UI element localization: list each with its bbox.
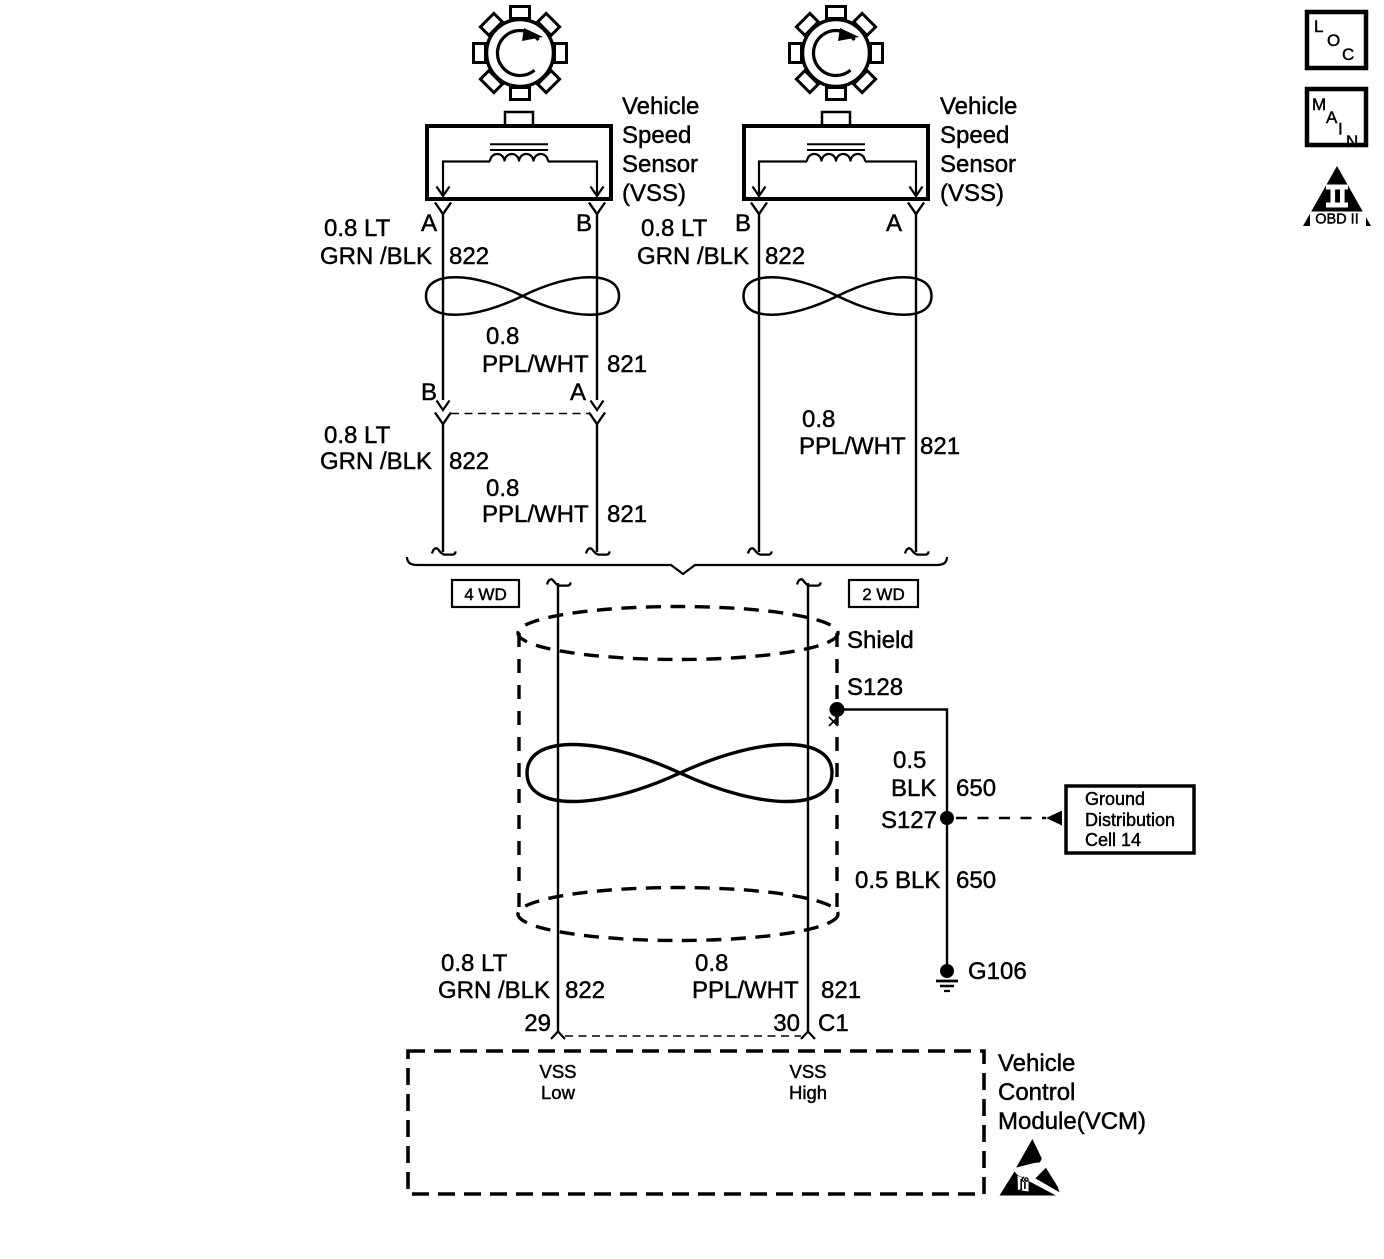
svg-text:GRN /BLK: GRN /BLK: [320, 243, 432, 270]
svg-text:821: 821: [920, 433, 960, 460]
svg-text:Vehicle: Vehicle: [622, 93, 699, 120]
left VSS box: [427, 126, 611, 199]
left VSS internal wire to pin B: [548, 162, 597, 195]
svg-text:821: 821: [821, 977, 861, 1004]
svg-text:Sensor: Sensor: [940, 151, 1016, 178]
svg-text:A: A: [1326, 108, 1338, 127]
svg-text:0.8 LT: 0.8 LT: [324, 215, 391, 242]
svg-text:822: 822: [449, 448, 489, 475]
svg-text:Control: Control: [998, 1079, 1075, 1106]
svg-text:S127: S127: [881, 807, 937, 834]
shield cylinder left side: [517, 633, 520, 914]
svg-text:M: M: [1312, 95, 1326, 114]
svg-text:Distribution: Distribution: [1085, 810, 1175, 830]
svg-text:GRN /BLK: GRN /BLK: [637, 243, 749, 270]
left VSS mounting nub: [505, 112, 533, 126]
OBD II label plate: [1310, 212, 1366, 227]
svg-text:822: 822: [765, 243, 805, 270]
svg-text:Vehicle: Vehicle: [998, 1050, 1075, 1077]
ground G106 symbol: [940, 964, 954, 978]
shield cylinder bottom ellipse: [518, 888, 838, 941]
svg-text:PPL/WHT: PPL/WHT: [482, 501, 589, 528]
dashed reference wire from S127: [956, 817, 1046, 819]
left VSS internal wire to pin A: [443, 162, 490, 195]
svg-text:VSS: VSS: [789, 1061, 826, 1082]
shield cylinder top ellipse: [518, 607, 838, 660]
svg-text:OBD II: OBD II: [1315, 212, 1359, 228]
svg-text:B: B: [576, 210, 592, 237]
svg-text:0.8: 0.8: [486, 475, 519, 502]
svg-text:822: 822: [449, 243, 489, 270]
svg-text:G106: G106: [968, 958, 1027, 985]
svg-text:Cell 14: Cell 14: [1085, 830, 1141, 850]
reluctor wheel (right VSS drive gear): [790, 7, 883, 100]
big twisted pair inside shield: [527, 745, 832, 802]
wire continuation tildes below brace: [547, 579, 571, 585]
reluctor wheel (left VSS drive gear): [474, 7, 567, 100]
wire VSS high through shield (808): [807, 583, 809, 1032]
svg-text:Sensor: Sensor: [622, 151, 698, 178]
inline connector arrows (left pair): [437, 401, 450, 411]
twisted pair symbol left: [426, 277, 619, 315]
svg-text:0.8: 0.8: [486, 323, 519, 350]
x mark below S128: [829, 717, 838, 726]
ground distribution reference box: [1066, 786, 1194, 853]
wire right B (759): [758, 214, 760, 552]
left VSS coil: [490, 154, 548, 161]
VCM pin caret 29: [551, 1032, 565, 1040]
svg-text:0.8: 0.8: [802, 406, 835, 433]
svg-text:Ground: Ground: [1085, 789, 1145, 809]
twisted pair symbol right: [744, 277, 932, 315]
inline connector Y pins: [435, 413, 451, 425]
2WD option box: [849, 580, 918, 607]
svg-text:VSS: VSS: [539, 1061, 576, 1082]
svg-text:0.8: 0.8: [695, 950, 728, 977]
svg-text:0.8 LT: 0.8 LT: [641, 215, 708, 242]
wire right A (916): [915, 214, 917, 552]
pin connectors under left VSS: [435, 203, 451, 215]
splice S128 dot: [830, 702, 845, 717]
inline connector dashed line: [451, 413, 589, 415]
wire left A (443) upper: [442, 214, 444, 400]
svg-text:821: 821: [607, 501, 647, 528]
svg-text:High: High: [789, 1082, 827, 1103]
svg-text:822: 822: [565, 977, 605, 1004]
svg-text:0.8 LT: 0.8 LT: [324, 422, 391, 449]
right VSS pole piece core: [807, 144, 865, 150]
right VSS mounting nub: [822, 112, 850, 126]
svg-text:Module(VCM): Module(VCM): [998, 1108, 1146, 1135]
svg-text:650: 650: [956, 867, 996, 894]
4WD option box: [452, 580, 519, 607]
svg-text:PPL/WHT: PPL/WHT: [482, 351, 589, 378]
OBD II symbol triangle: [1303, 166, 1371, 226]
svg-text:GRN /BLK: GRN /BLK: [320, 448, 432, 475]
right VSS internal wire to pin B: [759, 162, 807, 195]
pin connectors under right VSS: [751, 203, 767, 215]
svg-text:0.5 BLK: 0.5 BLK: [855, 867, 940, 894]
svg-text:0.8 LT: 0.8 LT: [441, 950, 508, 977]
svg-text:A: A: [421, 210, 437, 237]
wire continuation tilde marks above brace: [432, 548, 456, 554]
svg-text:29: 29: [524, 1010, 551, 1037]
svg-text:Vehicle: Vehicle: [940, 93, 1017, 120]
right VSS coil: [807, 154, 865, 161]
left VSS pole piece core: [490, 144, 548, 150]
svg-text:B: B: [421, 379, 437, 406]
svg-text:PPL/WHT: PPL/WHT: [692, 977, 799, 1004]
harness brace: [407, 557, 947, 574]
svg-text:Low: Low: [541, 1082, 576, 1103]
svg-text:I: I: [1338, 120, 1343, 139]
svg-text:PPL/WHT: PPL/WHT: [799, 433, 906, 460]
right VSS internal wire to pin A: [865, 162, 916, 195]
wire left A lower (443): [442, 424, 444, 552]
svg-text:Speed: Speed: [622, 122, 691, 149]
svg-text:S128: S128: [847, 674, 903, 701]
svg-text:(VSS): (VSS): [622, 180, 686, 207]
svg-text:O: O: [1327, 31, 1340, 50]
ESD sensitivity symbol: [1000, 1139, 1060, 1196]
svg-text:0.5: 0.5: [893, 747, 926, 774]
svg-text:BLK: BLK: [891, 775, 936, 802]
svg-text:650: 650: [956, 775, 996, 802]
reference arrowhead: [1046, 811, 1062, 826]
wire left B lower (597): [596, 424, 598, 552]
VCM dashed box: [408, 1051, 984, 1194]
svg-text:B: B: [735, 210, 751, 237]
wire from S128 to ground run: [843, 710, 947, 965]
right VSS box: [744, 126, 928, 199]
shield cylinder right side: [835, 633, 838, 914]
VCM pin caret 30: [801, 1032, 815, 1040]
MAIN reference box: [1307, 89, 1366, 145]
svg-text:GRN /BLK: GRN /BLK: [438, 977, 550, 1004]
OBD II roman numeral II: [1326, 185, 1348, 208]
svg-text:A: A: [570, 379, 586, 406]
LOC reference box: [1307, 12, 1366, 68]
svg-text:L: L: [1314, 17, 1323, 36]
svg-text:A: A: [886, 210, 902, 237]
svg-text:C1: C1: [818, 1010, 849, 1037]
VCM connector dashed line: [565, 1035, 801, 1037]
svg-text:2 WD: 2 WD: [862, 585, 905, 604]
svg-text:821: 821: [607, 351, 647, 378]
wire VSS low through shield (558): [557, 583, 559, 1032]
splice S127 dot: [940, 811, 954, 825]
svg-text:(VSS): (VSS): [940, 180, 1004, 207]
svg-text:Shield: Shield: [847, 627, 914, 654]
svg-text:C: C: [1342, 45, 1354, 64]
svg-text:30: 30: [773, 1010, 800, 1037]
svg-text:4 WD: 4 WD: [464, 585, 507, 604]
svg-text:N: N: [1346, 132, 1358, 151]
wire left B (597) upper: [596, 214, 598, 400]
svg-text:Speed: Speed: [940, 122, 1009, 149]
